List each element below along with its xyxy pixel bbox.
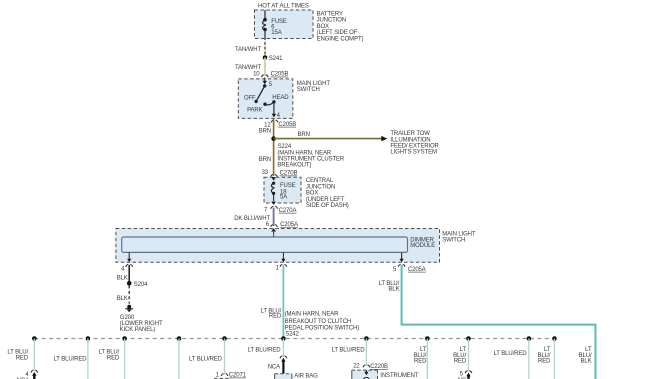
- svg-text:TAN/WHT: TAN/WHT: [235, 47, 261, 53]
- svg-text:BRN: BRN: [259, 157, 271, 163]
- wire LT BLU/BLK feed: [379, 265, 596, 379]
- svg-text:C270B: C270B: [280, 171, 298, 177]
- wire LT BLU/RED pin1 to S242: [261, 265, 360, 339]
- svg-text:PEDAL POSITION SWITCH): PEDAL POSITION SWITCH): [285, 325, 360, 331]
- svg-text:S241: S241: [269, 56, 283, 62]
- svg-text:C270A: C270A: [279, 208, 297, 214]
- svg-text:C2071: C2071: [229, 373, 247, 379]
- splice S204: [127, 281, 148, 288]
- svg-text:INSTRUMENT: INSTRUMENT: [380, 373, 419, 379]
- svg-text:AIR BAG: AIR BAG: [294, 374, 318, 379]
- svg-text:HEAD: HEAD: [272, 95, 289, 101]
- pin 4 exit: [121, 252, 132, 272]
- svg-text:10: 10: [253, 72, 260, 78]
- wire BLK lower: [117, 286, 129, 304]
- svg-text:MODULE: MODULE: [410, 243, 435, 249]
- svg-text:S224: S224: [278, 144, 292, 150]
- battery junction box: [255, 10, 364, 42]
- svg-text:LT BLU/RED: LT BLU/RED: [54, 357, 88, 363]
- wire drop 11: [537, 339, 554, 379]
- wire drop 8: [413, 339, 427, 379]
- svg-text:RED: RED: [414, 359, 427, 365]
- svg-text:LT BLU/RED: LT BLU/RED: [189, 356, 223, 362]
- svg-text:LIGHTS SYSTEM: LIGHTS SYSTEM: [390, 150, 437, 156]
- svg-text:PARK: PARK: [247, 107, 263, 113]
- svg-text:12: 12: [264, 123, 271, 129]
- connector C205B pin 12: [264, 120, 296, 129]
- entry arrow pin 6 into dimmer: [271, 228, 276, 237]
- connector C270A pin 7: [264, 206, 296, 213]
- splice S241: [263, 55, 283, 62]
- instrument cluster module: [352, 370, 419, 379]
- main light switch box: [238, 79, 330, 119]
- connector C205A pin 6: [266, 222, 298, 228]
- svg-text:RED: RED: [454, 359, 467, 365]
- fuse F6 15A: [263, 10, 287, 39]
- svg-text:JUNCTION: JUNCTION: [317, 18, 346, 24]
- svg-text:RED: RED: [107, 355, 120, 361]
- svg-text:(UNDER LEFT: (UNDER LEFT: [306, 197, 345, 203]
- wire BRN horizontal to trailer tow: [274, 131, 440, 156]
- svg-text:5A: 5A: [280, 195, 287, 201]
- svg-text:C205A: C205A: [408, 267, 426, 273]
- svg-text:(MAIN HARN, NEAR: (MAIN HARN, NEAR: [285, 311, 340, 317]
- wire DK BLU/WHT: [234, 208, 273, 226]
- svg-text:C205B: C205B: [271, 72, 289, 78]
- pin 1 exit: [276, 252, 287, 271]
- wire drop 10: [528, 339, 530, 379]
- svg-text:KICK PANEL): KICK PANEL): [120, 327, 156, 333]
- svg-text:SWITCH: SWITCH: [297, 87, 320, 93]
- connector C270B pin 33: [262, 170, 298, 177]
- ground G200: [120, 305, 163, 333]
- svg-text:CENTRAL: CENTRAL: [306, 178, 334, 184]
- svg-text:ENGINE COMPT): ENGINE COMPT): [317, 36, 364, 42]
- svg-text:(LOWER RIGHT: (LOWER RIGHT: [120, 321, 163, 327]
- svg-text:HOT AT ALL TIMES: HOT AT ALL TIMES: [258, 4, 309, 10]
- wire label LT BLU/BLK: [579, 347, 592, 365]
- svg-text:BREAKOUT): BREAKOUT): [277, 163, 311, 169]
- wire drop 5 connector C2071: [214, 339, 247, 379]
- wire drop 3: [99, 339, 125, 379]
- svg-text:SIDE OF DASH): SIDE OF DASH): [306, 203, 349, 209]
- svg-text:15A: 15A: [271, 30, 281, 36]
- node junction dots on bus: [32, 336, 557, 341]
- wire drop 6 air bag: [268, 339, 287, 374]
- svg-text:MAIN LIGHT: MAIN LIGHT: [442, 231, 476, 237]
- central junction box: [264, 177, 349, 209]
- connector C205B pin 10: [253, 72, 288, 78]
- svg-text:BRN: BRN: [298, 132, 310, 138]
- svg-text:JUNCTION: JUNCTION: [306, 184, 335, 190]
- svg-text:BOX: BOX: [317, 24, 329, 30]
- wire TAN/WHT lower: [235, 58, 265, 77]
- wire drop 1: [7, 339, 37, 379]
- svg-text:BLK: BLK: [388, 287, 399, 293]
- svg-text:TAN/WHT: TAN/WHT: [235, 65, 261, 71]
- svg-text:(LEFT SIDE OF: (LEFT SIDE OF: [317, 30, 358, 36]
- wire TAN/WHT upper: [235, 39, 265, 58]
- svg-text:G200: G200: [120, 315, 135, 321]
- svg-text:C220B: C220B: [370, 364, 388, 370]
- svg-text:C205A: C205A: [280, 222, 298, 228]
- svg-text:S242: S242: [285, 332, 299, 338]
- svg-text:LT BLU/RED: LT BLU/RED: [248, 348, 282, 354]
- switch internals: [244, 78, 289, 120]
- wire drop 2: [87, 339, 89, 379]
- svg-text:BLK: BLK: [581, 359, 592, 365]
- svg-text:TRAILER TOW: TRAILER TOW: [390, 131, 430, 137]
- svg-text:(MAIN HARN, NEAR: (MAIN HARN, NEAR: [277, 150, 332, 156]
- bus wire dashed: [34, 338, 556, 340]
- svg-text:ILLUMINATION: ILLUMINATION: [390, 137, 430, 143]
- svg-text:FEED/ EXTERIOR: FEED/ EXTERIOR: [390, 144, 439, 150]
- svg-text:C205B: C205B: [278, 122, 296, 128]
- wire drop 4: [178, 339, 180, 379]
- svg-text:33: 33: [262, 170, 269, 176]
- svg-text:RED: RED: [269, 314, 282, 320]
- svg-text:FUSE: FUSE: [280, 183, 296, 189]
- pin 5 exit C205A: [393, 252, 426, 272]
- fuse F18 5A: [271, 177, 295, 205]
- svg-text:22: 22: [353, 363, 360, 369]
- svg-text:BLK: BLK: [117, 276, 128, 282]
- svg-text:BATTERY: BATTERY: [317, 11, 343, 17]
- svg-text:BRN: BRN: [259, 129, 271, 135]
- svg-text:OFF: OFF: [244, 96, 256, 102]
- svg-text:BOX: BOX: [306, 191, 318, 197]
- air bag module: [275, 374, 319, 379]
- wire drop 9: [453, 339, 472, 379]
- svg-text:INSTRUMENT CLUSTER: INSTRUMENT CLUSTER: [277, 157, 345, 163]
- svg-text:DK BLU/WHT: DK BLU/WHT: [234, 216, 270, 222]
- svg-text:S204: S204: [134, 282, 148, 288]
- splice S224: [271, 136, 345, 168]
- svg-text:MAIN LIGHT: MAIN LIGHT: [297, 81, 331, 87]
- wire drop 7 connector C220B: [353, 339, 388, 371]
- svg-text:LT BLU/RED: LT BLU/RED: [332, 348, 366, 354]
- svg-text:BREAKOUT TO CLUTCH: BREAKOUT TO CLUTCH: [285, 319, 352, 325]
- svg-text:RED: RED: [16, 355, 29, 361]
- svg-text:LT BLU/RED: LT BLU/RED: [494, 351, 528, 357]
- svg-text:BLK: BLK: [117, 296, 128, 302]
- svg-text:NCA: NCA: [268, 365, 280, 371]
- wire BRN vertical: [259, 119, 274, 176]
- svg-text:RED: RED: [538, 359, 551, 365]
- main light switch (dimmer) dashed box: [116, 229, 476, 263]
- svg-text:SWITCH: SWITCH: [442, 238, 465, 244]
- dimmer module: [122, 237, 436, 252]
- wire BLK upper: [117, 265, 129, 283]
